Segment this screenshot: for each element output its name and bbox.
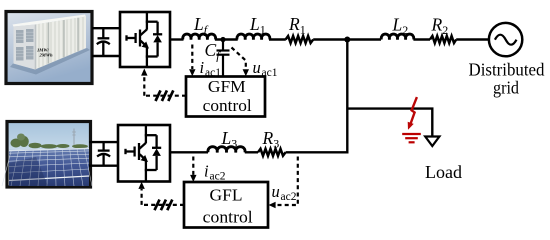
fault ground <box>402 134 421 142</box>
fault lightning symbol <box>408 97 417 130</box>
svg-text:Load: Load <box>425 162 462 182</box>
junction node dot <box>344 37 350 43</box>
solar PV photo <box>2 122 92 188</box>
svg-text:u: u <box>272 182 280 201</box>
wire to junction <box>313 38 381 40</box>
svg-text:u: u <box>253 58 261 77</box>
wire <box>215 38 238 40</box>
battery storage container photo <box>6 12 92 84</box>
wire <box>245 151 258 153</box>
IGBT Q2 with diode <box>126 126 162 182</box>
signal slashes <box>156 90 174 101</box>
svg-text:i: i <box>204 162 209 181</box>
resistor R3 <box>258 149 286 156</box>
inductor Lf <box>183 34 216 40</box>
junction vertical wire <box>346 40 348 154</box>
wire to grid <box>456 38 489 40</box>
svg-text:GFL: GFL <box>210 185 243 204</box>
svg-text:ac1: ac1 <box>262 67 278 79</box>
inverter U1 box <box>120 12 170 67</box>
dc-link wires bottom <box>89 142 118 166</box>
svg-text:ac2: ac2 <box>281 191 297 203</box>
svg-text:GFM: GFM <box>208 77 246 96</box>
wire <box>413 38 430 40</box>
load branch wire <box>347 109 432 137</box>
wire inverter1 output <box>170 38 184 40</box>
resistor R2 <box>430 36 456 43</box>
svg-text:control: control <box>203 207 253 226</box>
wire inverter2 output <box>170 151 208 153</box>
wire <box>269 38 286 40</box>
signal slashes <box>155 200 173 211</box>
dashed GFL to inverter2 control path <box>138 182 184 205</box>
GFL control box <box>184 182 268 228</box>
resistor R1 <box>286 36 314 43</box>
dc-link capacitor bottom <box>97 142 110 166</box>
node dot Cf tap <box>220 37 225 42</box>
load arrow symbol <box>425 137 439 147</box>
inverter U2 box <box>118 125 170 182</box>
inductor L1 <box>237 34 270 40</box>
dashed uac1 measurement arrow <box>232 48 250 77</box>
dashed iac2 measurement arrow <box>190 157 196 183</box>
dc-link wires top <box>92 28 120 56</box>
svg-text:ac2: ac2 <box>210 171 226 183</box>
svg-text:control: control <box>203 96 252 115</box>
inductor L3 <box>208 147 245 153</box>
inductor L2 <box>381 34 414 40</box>
AC source distributed grid <box>489 23 522 56</box>
dashed iac1 measurement arrow <box>189 45 195 77</box>
svg-text:ac1: ac1 <box>205 67 221 79</box>
svg-text:grid: grid <box>493 78 519 98</box>
svg-text:Distributed: Distributed <box>469 60 545 80</box>
svg-text:2MWh: 2MWh <box>39 53 53 58</box>
svg-text:i: i <box>200 58 205 77</box>
capacitor Cf <box>217 40 230 78</box>
wire to junction vertical <box>286 151 349 153</box>
dc-link capacitor top <box>97 28 110 56</box>
dashed GFM to inverter1 control path <box>141 69 186 96</box>
dashed uac2 measurement arrow <box>269 157 298 209</box>
GFM control box <box>186 77 265 117</box>
IGBT Q1 with diode <box>127 12 163 67</box>
